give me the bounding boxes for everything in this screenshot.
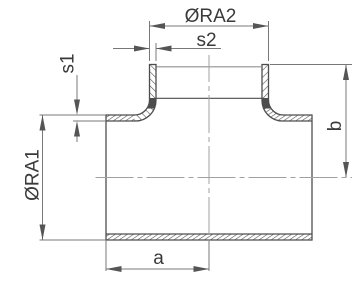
- extension line bottom y=240: [40, 239, 107, 241]
- outline: run outer top-left: [106, 65, 150, 116]
- wire: run bottom wall band hatch: [106, 234, 312, 240]
- dimension line b: [345, 65, 347, 177]
- outline: run outer top-right: [269, 65, 313, 116]
- dimension line s2 left tail with arrow: [113, 48, 149, 50]
- extension line s2 inner: [155, 43, 157, 61]
- dimension line s1 lower tail with arrow: [76, 126, 78, 142]
- dimension line s1 upper tail with arrow: [76, 75, 78, 110]
- svg-text:a: a: [153, 248, 164, 269]
- svg-text:s2: s2: [196, 30, 216, 51]
- weld crotch blob left: [147, 98, 157, 109]
- svg-text:s1: s1: [58, 53, 79, 73]
- svg-text:b: b: [325, 121, 346, 132]
- dimension line a: [107, 268, 209, 270]
- extension surface line y=115: [40, 114, 107, 116]
- outline: run bottom walls: [106, 233, 312, 235]
- extension line center: [208, 241, 210, 272]
- extension line left of ORA2: [149, 21, 151, 61]
- outline: run inner top-right: [262, 65, 312, 122]
- wire: run top-right wall band hatch: [262, 99, 312, 122]
- extension line left end: [105, 241, 107, 271]
- centerline: branch vertical axis: [208, 55, 210, 248]
- far-side bore edge line in branch opening: [157, 66, 263, 68]
- outline: right end face: [311, 114, 313, 240]
- outline: left end face: [105, 114, 107, 240]
- extension surface line y=121: [73, 120, 106, 122]
- svg-text:ØRA2: ØRA2: [185, 6, 237, 27]
- dimension line ORA2: [150, 25, 268, 27]
- opening line across branch: [156, 97, 262, 99]
- outline: branch left end face: [149, 64, 157, 66]
- wire: run top-left wall band hatch: [106, 99, 156, 122]
- extension line top y=64.5: [270, 64, 352, 66]
- outline: branch right end face: [261, 64, 269, 66]
- wire: branch right wall band hatch: [262, 65, 269, 101]
- wire: branch left wall band hatch: [150, 65, 157, 101]
- dimension line s2 right tail with arrow: [157, 48, 222, 50]
- extension line right of ORA2: [268, 21, 270, 61]
- wire: left fillet curve band rehatch: [135, 98, 157, 121]
- svg-text:ØRA1: ØRA1: [23, 149, 44, 201]
- centerline: run horizontal axis: [96, 177, 353, 179]
- dimension line ORA1: [42, 116, 44, 240]
- outline: run inner top-left: [106, 65, 156, 122]
- weld crotch blob right: [262, 98, 272, 109]
